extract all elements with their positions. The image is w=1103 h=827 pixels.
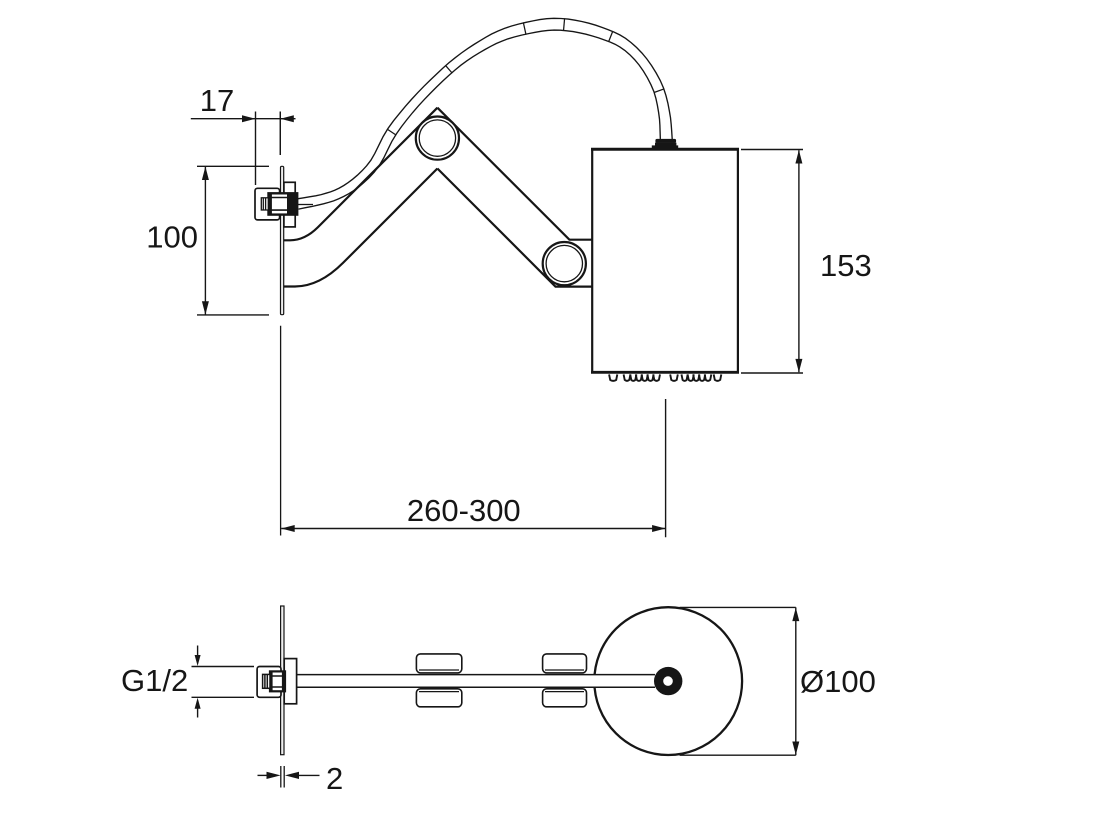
spray nozzles — [609, 374, 721, 380]
hex nut (bottom view) — [269, 671, 285, 691]
dim 260-300 lines — [281, 399, 665, 537]
arm bar — [297, 675, 655, 688]
svg-text:153: 153 — [820, 248, 872, 283]
hose inner edge — [299, 30, 661, 209]
dim 260-300 arrows — [281, 525, 665, 532]
arm lower band upper edge — [283, 108, 437, 241]
hose segment ticks — [387, 18, 664, 135]
hub — [654, 667, 682, 695]
plate stub at dim 2 — [281, 766, 284, 788]
arm upper band upper edge — [437, 108, 592, 240]
wall flange — [284, 182, 295, 227]
dim 17 arrows — [242, 115, 294, 122]
shower head body — [591, 148, 739, 373]
joint block 1 bottom — [416, 689, 461, 707]
svg-text:100: 100 — [146, 220, 198, 255]
dim diameter 100 arrows — [792, 608, 799, 755]
head disc — [594, 607, 742, 755]
svg-text:17: 17 — [200, 83, 234, 118]
wall plate (bottom view) — [281, 606, 284, 755]
dim 2 arrows — [267, 772, 300, 779]
joint block 1 top — [416, 654, 461, 673]
wall plate (side view) — [281, 166, 284, 314]
dim 17 lines — [191, 112, 296, 186]
hose fitting on head — [652, 139, 678, 149]
threaded stub — [261, 198, 268, 210]
dim 153 arrows — [795, 150, 802, 372]
dim 2 lines — [258, 774, 320, 776]
dim diameter 100 lines — [680, 607, 796, 755]
flange (bottom view) — [284, 659, 296, 704]
escutcheon bracket — [255, 188, 280, 220]
dim G1/2 arrows — [195, 655, 201, 709]
dim 153 lines — [741, 150, 803, 374]
arm lower band lower edge — [283, 169, 437, 287]
joint block 2 bottom — [543, 689, 587, 707]
threaded stub (bottom view) — [263, 674, 270, 688]
hose stub line at nut — [297, 204, 313, 206]
top pivot joint — [416, 117, 459, 160]
svg-text:2: 2 — [326, 761, 343, 796]
hose outer edge — [297, 18, 673, 199]
dim G1/2 lines — [192, 646, 255, 718]
centerline below plate — [280, 326, 282, 536]
joint block 2 top — [543, 654, 587, 673]
svg-text:260-300: 260-300 — [407, 493, 521, 528]
dim 100 lines — [197, 166, 269, 315]
centerline above plate — [279, 112, 281, 156]
dim 100 arrows — [202, 167, 209, 315]
arm upper band lower edge — [437, 169, 592, 287]
svg-text:G1/2: G1/2 — [121, 663, 188, 698]
svg-text:Ø100: Ø100 — [800, 664, 876, 699]
hex nut — [268, 193, 297, 214]
escutcheon (bottom view) — [257, 667, 281, 698]
bottom pivot joint — [543, 242, 586, 285]
joint block inner lips — [419, 670, 584, 692]
